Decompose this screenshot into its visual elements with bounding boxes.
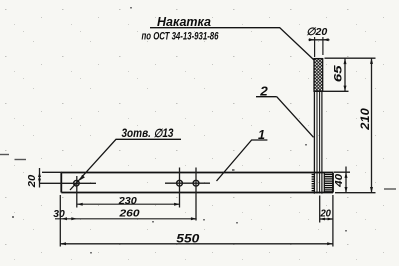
dim line 20 left xyxy=(39,168,41,188)
leader from knurl note to knurl xyxy=(150,28,314,60)
dim line 550 xyxy=(60,243,333,245)
svg-text:∅20: ∅20 xyxy=(306,26,327,38)
svg-text:по ОСТ 34-13-931-86: по ОСТ 34-13-931-86 xyxy=(142,31,220,43)
dim line ⌀20 xyxy=(309,39,330,41)
hole H2 xyxy=(177,180,183,186)
extension top (bar top extended) xyxy=(42,171,62,173)
dim line 40 xyxy=(345,167,347,193)
bar outline xyxy=(61,173,333,193)
dim line 260 xyxy=(55,218,197,220)
extension bottom (shared with 40) xyxy=(335,192,376,194)
dim line 210 xyxy=(371,58,373,193)
leader underline xyxy=(70,139,181,190)
hole H1 xyxy=(74,180,80,186)
svg-text:260: 260 xyxy=(118,209,140,220)
extension lines xyxy=(319,196,321,223)
extension bottom 65 xyxy=(323,90,349,92)
junction hatch left strip xyxy=(312,175,315,191)
dim line 65 xyxy=(344,58,346,91)
vertical centerline H1 / extension xyxy=(76,176,78,208)
transition line at knurl bottom xyxy=(314,90,324,92)
extension left xyxy=(59,195,61,247)
svg-text:210: 210 xyxy=(360,108,372,131)
dim line 230 xyxy=(77,203,180,205)
svg-text:65: 65 xyxy=(332,64,344,82)
centerline hole H1 xyxy=(39,182,96,184)
svg-text:30: 30 xyxy=(53,209,65,220)
svg-text:20: 20 xyxy=(320,209,332,220)
junction hatch right block xyxy=(324,173,332,193)
centerline holes H2-H3 xyxy=(165,182,210,184)
svg-text:3отв. ∅13: 3отв. ∅13 xyxy=(122,128,175,140)
rod body lines below knurl xyxy=(314,91,322,193)
leader 2 xyxy=(256,97,314,138)
svg-text:550: 550 xyxy=(176,233,200,245)
svg-text:Накатка: Накатка xyxy=(157,15,211,29)
dim line 20 xyxy=(320,218,333,220)
leader 1 xyxy=(217,140,268,181)
extension top (shared with 210) xyxy=(325,57,376,59)
vertical centerline H2 / extension xyxy=(179,168,181,208)
svg-text:230: 230 xyxy=(118,196,138,207)
svg-text:20: 20 xyxy=(26,175,38,189)
vertical centerline H3 / extension xyxy=(195,168,197,221)
scan artifacts xyxy=(0,155,396,190)
hole H3 xyxy=(193,180,199,186)
svg-text:40: 40 xyxy=(333,174,345,188)
extension lines ⌀20 xyxy=(314,37,316,57)
knurled section xyxy=(314,59,323,92)
extension top 40 xyxy=(334,171,351,173)
